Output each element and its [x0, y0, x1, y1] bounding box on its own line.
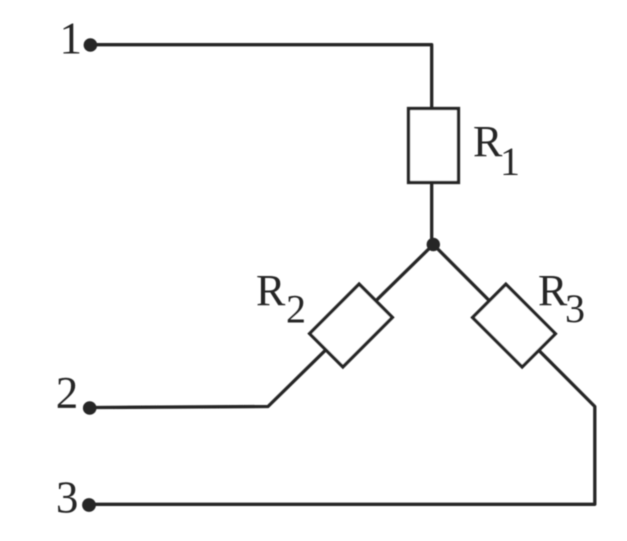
svg-text:1: 1: [60, 13, 83, 63]
resistor R3: [473, 284, 556, 367]
terminal dot 3: [82, 498, 96, 512]
svg-text:2: 2: [56, 368, 79, 418]
svg-text:1: 1: [500, 139, 520, 184]
svg-text:3: 3: [565, 286, 585, 331]
svg-text:3: 3: [56, 472, 79, 522]
wire node to terminal 2 (diagonal then horizontal): [96, 245, 433, 408]
resistor R1: [409, 109, 459, 183]
wire terminal1 to R1 (horizontal then down): [97, 45, 432, 245]
svg-text:2: 2: [286, 287, 306, 332]
terminal dot 1: [84, 38, 98, 52]
svg-text:R: R: [473, 117, 503, 166]
svg-text:R: R: [256, 266, 286, 315]
wire node to terminal 3 (diagonal, vertical, horizontal): [95, 245, 595, 505]
resistor R2: [310, 284, 393, 367]
node junction dot: [427, 238, 440, 251]
terminal dot 2: [83, 401, 97, 415]
svg-text:R: R: [538, 266, 568, 315]
